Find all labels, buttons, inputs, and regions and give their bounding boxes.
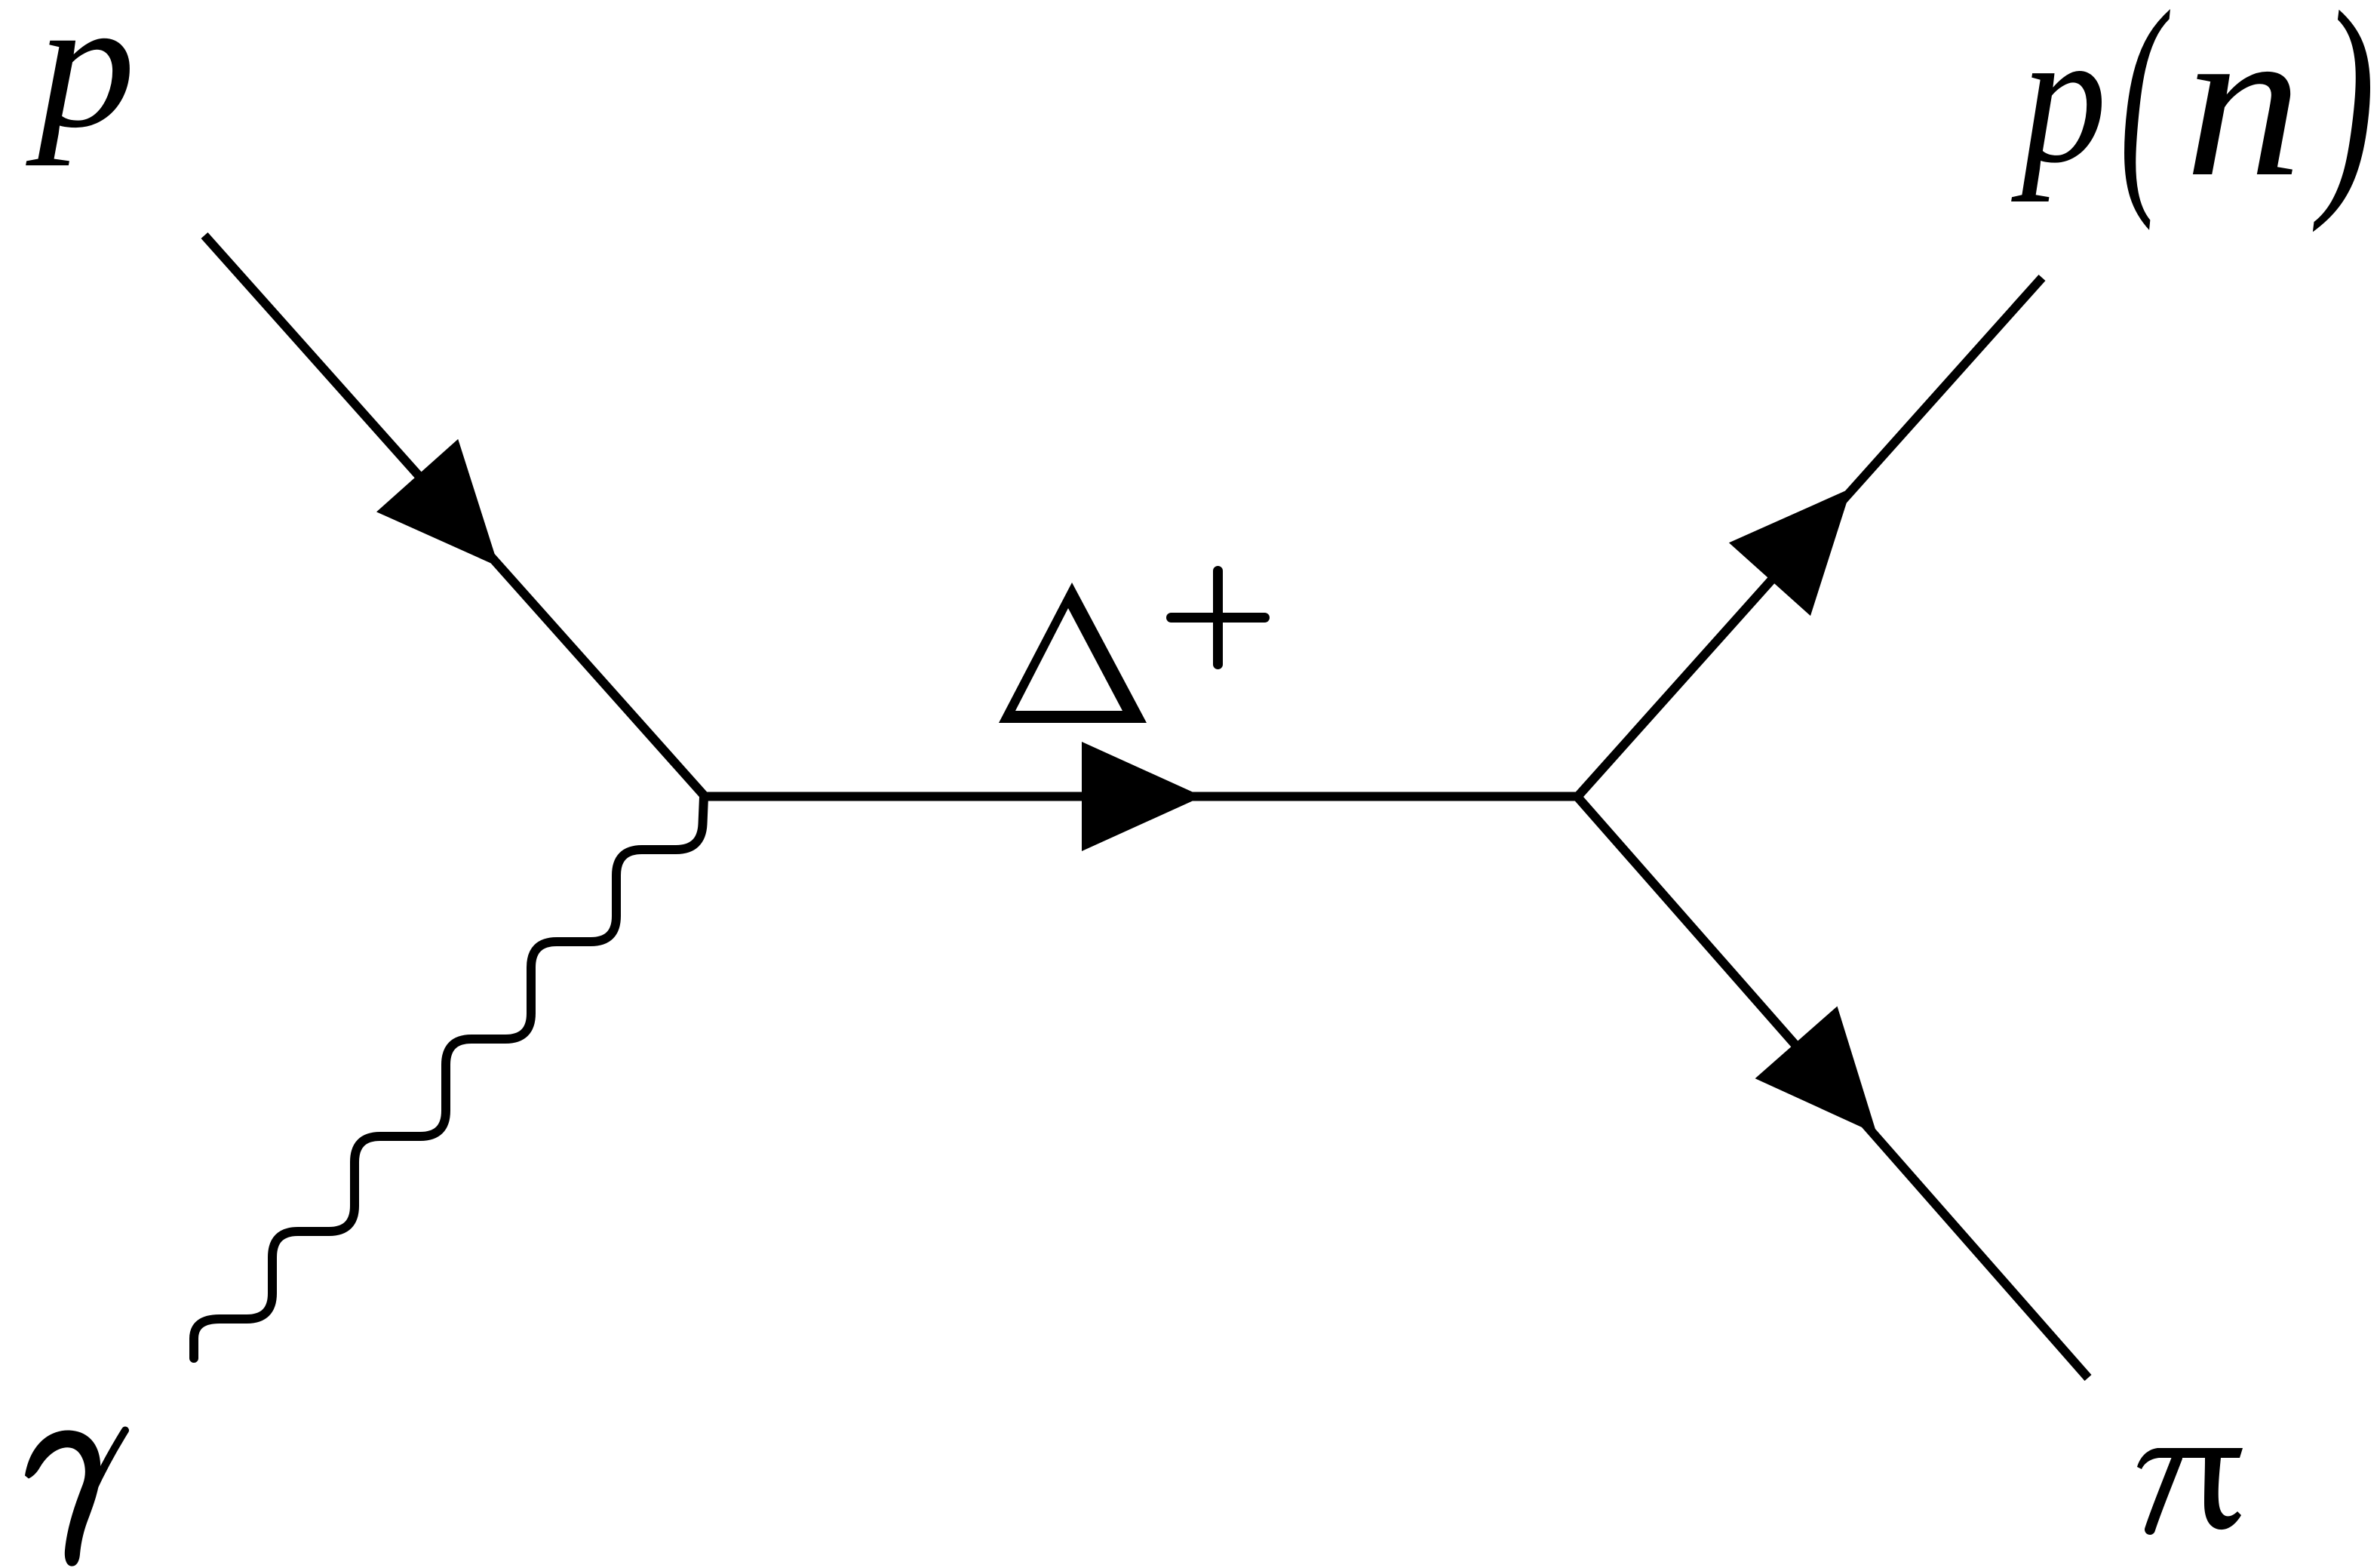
fermion line: incoming proton p [204, 235, 705, 796]
arrowhead on pi line [1755, 1007, 1877, 1135]
arrowhead on p(n) line [1729, 488, 1851, 616]
arrowhead on Delta line [1082, 742, 1202, 851]
label p(n) : open paren [2120, 0, 2171, 232]
label p(n) : n [2185, 0, 2302, 222]
label pi [2137, 1448, 2243, 1530]
label plus (superscript of Delta) [1172, 571, 1265, 665]
label Delta (triangle glyph) [999, 583, 1147, 723]
svg-text:n: n [2185, 0, 2302, 222]
svg-text:p: p [26, 0, 136, 166]
label gamma (photon) [25, 1430, 125, 1566]
arrowhead on proton line [376, 439, 499, 567]
svg-text:p: p [2010, 0, 2107, 202]
label p(n) : p [2010, 0, 2107, 202]
fermion line: outgoing p(n) [1577, 278, 2042, 797]
photon line gamma (wavy) [194, 797, 704, 1358]
label p (incoming proton) [26, 0, 136, 166]
label p(n) : close paren [2311, 0, 2375, 233]
meson line: outgoing pi [1577, 797, 2088, 1378]
svg-text:(: ( [2120, 0, 2171, 232]
fermion line: Delta+ propagator [702, 792, 1577, 801]
